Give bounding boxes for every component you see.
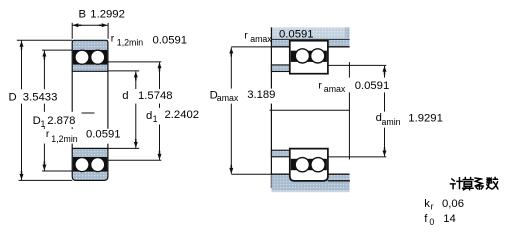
- label B 1.2992: [79, 9, 125, 21]
- svg-text:1.2992: 1.2992: [90, 9, 125, 21]
- housing shoulder top-left: [271, 40, 291, 47]
- svg-text:k: k: [424, 198, 430, 210]
- svg-text:amax: amax: [217, 93, 239, 103]
- shaft shoulder strip top: [271, 65, 290, 72]
- svg-text:r: r: [46, 128, 50, 140]
- svg-text:1,2min: 1,2min: [117, 37, 144, 47]
- label D1 2.878: [32, 112, 82, 129]
- dimension Damax lines: [229, 47, 271, 174]
- svg-text:2.878: 2.878: [47, 115, 75, 127]
- housing bar top: [271, 27, 349, 40]
- bore axis centreline: [82, 112, 95, 114]
- label Damax 3.189: [209, 89, 276, 104]
- dimension B (width) : extension + dimension lines: [72, 23, 108, 39]
- svg-text:r: r: [431, 201, 434, 211]
- housing wall line: [270, 27, 272, 188]
- housing seat line bottom-right: [328, 180, 350, 182]
- housing bar bottom: [271, 175, 349, 191]
- mounted bearing top half: [290, 41, 328, 74]
- dimension damin lines: [328, 65, 386, 156]
- svg-text:1,2min: 1,2min: [51, 134, 78, 144]
- dimension D (outer diameter) lines: [17, 40, 72, 180]
- svg-text:1.9291: 1.9291: [408, 112, 443, 124]
- housing shoulder top-right: [328, 40, 349, 47]
- label D 3.5433: [8, 89, 58, 103]
- centreline (right figure): [270, 109, 350, 111]
- svg-text:3.189: 3.189: [247, 89, 275, 101]
- svg-text:3.5433: 3.5433: [23, 92, 58, 104]
- svg-text:r: r: [318, 79, 322, 91]
- svg-text:0.0591: 0.0591: [153, 35, 188, 47]
- label d 1.5748: [121, 89, 173, 104]
- factor f0 14: [424, 213, 456, 227]
- svg-text:1: 1: [153, 114, 158, 124]
- dimension D1 lines: [42, 50, 73, 171]
- mounted bearing bottom half: [290, 149, 328, 181]
- label d1 2.2402: [145, 108, 199, 125]
- shaft section edge line: [348, 62, 350, 159]
- dimension d (bore) lines: [108, 71, 139, 148]
- label r amax 0.0591 (shaft fillet): [318, 78, 390, 95]
- svg-text:1.5748: 1.5748: [138, 90, 173, 102]
- svg-text:1: 1: [41, 119, 46, 129]
- label r1,2min 0.0591 (top): [110, 31, 187, 48]
- svg-text:amax: amax: [324, 84, 346, 94]
- bearing top cross-section (outer ring, ball row, inner ring): [72, 40, 108, 71]
- svg-text:0.0591: 0.0591: [355, 80, 390, 92]
- svg-text:0.0591: 0.0591: [279, 28, 314, 40]
- label r amax (housing fillet): [244, 30, 272, 44]
- svg-text:0: 0: [429, 217, 434, 227]
- svg-text:r: r: [244, 30, 248, 42]
- heading : calculation factors (CJK): [450, 177, 498, 190]
- factor kr 0,06: [424, 198, 464, 212]
- svg-text:amin: amin: [382, 117, 401, 127]
- bearing side face lines: [71, 71, 73, 148]
- shaft shoulder strip bottom: [271, 150, 290, 157]
- bearing bottom cross-section: [72, 148, 108, 180]
- svg-text:d: d: [146, 110, 152, 122]
- label damin 1.9291: [375, 112, 443, 128]
- svg-text:2.2402: 2.2402: [165, 109, 200, 121]
- svg-text:amax: amax: [250, 34, 272, 44]
- svg-text:B: B: [79, 9, 87, 21]
- svg-text:14: 14: [443, 213, 456, 225]
- svg-text:D: D: [9, 92, 17, 104]
- svg-text:r: r: [111, 32, 115, 44]
- svg-text:0.0591: 0.0591: [86, 128, 121, 140]
- dimension d1 lines: [106, 62, 162, 160]
- svg-text:d: d: [122, 90, 128, 102]
- label r1,2min 0.0591 (bottom): [44, 128, 121, 144]
- svg-text:0,06: 0,06: [442, 198, 464, 210]
